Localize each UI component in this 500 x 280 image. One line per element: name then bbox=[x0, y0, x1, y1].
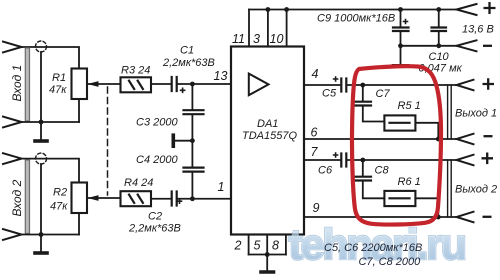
pin stub 11 bbox=[248, 10, 250, 47]
svg-text:Вход 2: Вход 2 bbox=[10, 179, 24, 216]
wire pin 4 bbox=[304, 84, 340, 86]
svg-text:R5 1: R5 1 bbox=[398, 100, 421, 112]
wire input2 bottom bbox=[22, 234, 80, 236]
svg-text:C3 2000: C3 2000 bbox=[136, 117, 178, 129]
pin stub 8 bbox=[285, 235, 287, 255]
svg-text:9: 9 bbox=[313, 201, 320, 215]
wire C1 to pin13 bbox=[178, 83, 231, 85]
wire R1 bottom bbox=[78, 99, 80, 122]
node C10 bottom bbox=[436, 43, 441, 48]
svg-text:R6 1: R6 1 bbox=[398, 176, 421, 188]
resistor R5 bbox=[384, 115, 415, 130]
polarity - supply bbox=[483, 45, 492, 47]
svg-text:C9 1000мк*16B: C9 1000мк*16B bbox=[317, 13, 395, 25]
cable shield bar input1 bbox=[25, 48, 29, 121]
svg-text:7: 7 bbox=[311, 145, 319, 159]
node input2 ground bbox=[39, 232, 44, 237]
wire C7 to R5 bbox=[363, 106, 385, 122]
wire C3 to mid node bbox=[191, 115, 193, 141]
capacitor C10 bbox=[438, 10, 440, 27]
wire R5 to pin6 line bbox=[415, 123, 438, 139]
svg-text:R4 24: R4 24 bbox=[124, 177, 153, 189]
polarity + out1 bbox=[483, 78, 495, 90]
capacitor C2 bbox=[172, 192, 177, 206]
pin stub 10 bbox=[286, 10, 288, 47]
svg-text:TDA1557Q: TDA1557Q bbox=[242, 130, 297, 142]
svg-text:C10: C10 bbox=[429, 51, 450, 63]
cable mark out2 bbox=[448, 160, 452, 217]
wire C8 to R6 bbox=[363, 181, 385, 198]
svg-text:2,2мк*63B: 2,2мк*63B bbox=[162, 57, 215, 69]
svg-text:C7: C7 bbox=[376, 88, 391, 100]
wire bottom pins join bbox=[249, 254, 286, 256]
wire pin 9 bbox=[304, 216, 457, 218]
node bus pin3 bbox=[266, 7, 271, 12]
capacitor C6 bbox=[341, 154, 346, 167]
svg-text:1: 1 bbox=[218, 180, 225, 194]
wire R3 to C1 bbox=[151, 83, 170, 85]
svg-text:C2: C2 bbox=[148, 211, 162, 223]
pin stub 2 bbox=[248, 235, 250, 255]
svg-text:10: 10 bbox=[270, 32, 284, 46]
wire pin 6 bbox=[304, 138, 457, 140]
cable shield bar input2 bbox=[25, 160, 29, 234]
svg-text:Выход 1: Выход 1 bbox=[455, 108, 497, 120]
wire input1 bottom bbox=[22, 121, 80, 123]
svg-text:C5: C5 bbox=[322, 88, 337, 100]
wire shield down input2 bbox=[40, 164, 42, 235]
connector input 2 top chevron bbox=[3, 153, 22, 164]
svg-text:Вход 1: Вход 1 bbox=[10, 65, 24, 102]
capacitor C4 bbox=[184, 168, 204, 172]
plus C6 bbox=[333, 152, 339, 158]
op-amp IC DA1 body bbox=[231, 47, 304, 235]
polarity - out2 bbox=[483, 216, 492, 218]
svg-text:6: 6 bbox=[311, 126, 318, 140]
wire R6 to pin9 line bbox=[415, 198, 438, 217]
resistor R4 bbox=[121, 191, 152, 206]
node mid bbox=[190, 138, 195, 143]
resistor R6 bbox=[384, 191, 415, 206]
wire mid to C4 bbox=[191, 141, 193, 167]
top supply bus bbox=[249, 9, 457, 11]
wire input2 top bbox=[22, 159, 80, 183]
svg-text:8: 8 bbox=[272, 239, 279, 253]
svg-text:13,6 В: 13,6 В bbox=[462, 24, 494, 36]
ground C9 bbox=[400, 46, 402, 65]
node C9 top bbox=[398, 7, 403, 12]
wire R4 to C2 bbox=[151, 198, 170, 200]
R1 wiper arrow bbox=[88, 83, 121, 85]
watermark tehnari.ru bbox=[289, 221, 465, 269]
ground input2 bbox=[40, 235, 42, 252]
svg-text:3: 3 bbox=[253, 32, 260, 46]
connector out2 plus chevron bbox=[457, 155, 474, 166]
wire C6 to out2 plus bbox=[348, 159, 457, 161]
node pin13 bbox=[190, 82, 195, 87]
connector out1 plus chevron bbox=[457, 80, 474, 91]
svg-text:2: 2 bbox=[234, 239, 242, 253]
node pin1 bbox=[190, 196, 195, 201]
wire C2 to pin1 bbox=[178, 198, 231, 200]
svg-text:DA1: DA1 bbox=[257, 118, 278, 130]
wire C4 to pin1 node bbox=[191, 172, 193, 199]
connector out1 minus chevron bbox=[457, 134, 474, 145]
connector input 2 bottom chevron bbox=[3, 229, 22, 240]
wire pin 7 bbox=[304, 159, 340, 161]
potentiometer R1 bbox=[72, 69, 88, 100]
svg-text:4: 4 bbox=[312, 67, 319, 81]
ground input1 bbox=[40, 122, 42, 140]
shield screen (dashed circle) input 1 bbox=[36, 41, 47, 52]
svg-text:47к: 47к bbox=[49, 84, 67, 96]
svg-text:C7, C8 2000: C7, C8 2000 bbox=[359, 256, 422, 268]
connector out2 minus chevron bbox=[457, 212, 474, 223]
wire node to C3 bbox=[191, 84, 193, 110]
svg-text:C6: C6 bbox=[318, 165, 333, 177]
capacitor C7 bbox=[362, 85, 364, 101]
mech link dashed bbox=[107, 87, 109, 195]
wire C5 to out1 plus bbox=[348, 84, 457, 86]
svg-text:47к: 47к bbox=[50, 201, 68, 213]
shield screen (dashed circle) input 2 bbox=[36, 153, 47, 164]
connector supply minus chevron bbox=[457, 40, 477, 51]
potentiometer R2 bbox=[72, 183, 88, 214]
polarity - out1 bbox=[484, 135, 493, 137]
plus C5 bbox=[333, 76, 339, 82]
connector input 1 top chevron bbox=[3, 42, 22, 53]
svg-text:R1: R1 bbox=[52, 72, 66, 84]
red marker loop bbox=[352, 66, 441, 224]
capacitor C8 bbox=[362, 160, 364, 176]
wire R2 bottom bbox=[78, 213, 80, 235]
wire shield down input1 bbox=[40, 52, 42, 122]
node bottom pins bbox=[265, 252, 270, 257]
svg-text:C1: C1 bbox=[180, 45, 194, 57]
capacitor C5 bbox=[341, 79, 346, 92]
wire input1 top bbox=[22, 47, 80, 69]
resistor R3 bbox=[121, 77, 152, 92]
connector supply plus chevron bbox=[457, 4, 477, 15]
ground IC bbox=[266, 255, 268, 271]
node input1 ground bbox=[39, 120, 44, 125]
svg-text:11: 11 bbox=[232, 32, 245, 46]
plus C2 bbox=[177, 198, 183, 204]
svg-text:2,2мк*63B: 2,2мк*63B bbox=[128, 223, 181, 235]
capacitor C3 bbox=[184, 110, 204, 114]
pin stub 3 bbox=[267, 10, 269, 47]
node pin6 out bbox=[436, 137, 441, 142]
polarity marks on capacitors bbox=[177, 19, 409, 204]
connector input 1 bottom chevron bbox=[3, 117, 22, 128]
svg-text:R3 24: R3 24 bbox=[121, 65, 150, 77]
svg-text:5: 5 bbox=[254, 239, 261, 253]
capacitor C1 bbox=[172, 77, 177, 91]
plus C1 bbox=[180, 88, 186, 94]
node bus pin10 bbox=[284, 7, 289, 12]
svg-text:C8: C8 bbox=[375, 165, 390, 177]
node out2 bbox=[360, 158, 365, 163]
svg-text:R2: R2 bbox=[53, 187, 67, 199]
node pin9 out bbox=[436, 215, 441, 220]
plus C9 bbox=[403, 19, 409, 25]
svg-text:C5, C6 2200мк*16B: C5, C6 2200мк*16B bbox=[324, 242, 422, 254]
node out1 bbox=[360, 83, 365, 88]
node C9 bottom bbox=[398, 43, 403, 48]
R2 wiper arrow bbox=[88, 197, 121, 199]
svg-text:Выход 2: Выход 2 bbox=[455, 184, 497, 196]
ground mid (left bar) bbox=[175, 140, 193, 142]
amp triangle bbox=[249, 74, 269, 96]
cable mark out1 bbox=[448, 85, 452, 139]
polarity + supply bbox=[482, 2, 496, 217]
svg-text:13: 13 bbox=[214, 69, 228, 83]
svg-text:C4 2000: C4 2000 bbox=[136, 154, 178, 166]
pin stub 5 bbox=[266, 235, 268, 255]
wire supply minus bbox=[401, 45, 457, 47]
node C10 top bbox=[436, 7, 441, 12]
polarity + out2 bbox=[482, 153, 494, 165]
capacitor C9 bbox=[400, 10, 402, 27]
